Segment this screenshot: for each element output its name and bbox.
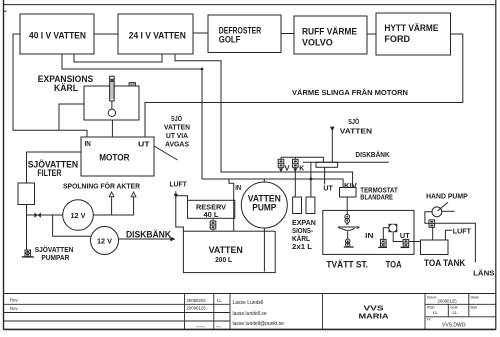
svg-text:AVGAS: AVGAS [165,140,189,149]
svg-text:20090203: 20090203 [187,298,207,303]
title block row lines left [4,303,231,305]
svg-text:lasse.lundell@punkt.se: lasse.lundell@punkt.se [233,321,285,327]
svg-text:UT: UT [323,183,333,192]
wire filter line to pump 1 [27,214,63,216]
wash basin symbol [338,222,360,239]
dip tube / pump suction into tank [263,228,265,272]
svg-text:FILTER: FILTER [37,168,62,178]
svg-text:UT: UT [400,231,410,240]
svg-text:UT: UT [138,139,150,148]
svg-text:VVS.DWG: VVS.DWG [442,323,466,329]
svg-text:Skala: Skala [471,296,479,300]
wire 24L stub right via x221 and y172 to termostat [175,54,353,188]
toilet IN valve [378,239,387,247]
wire valve stem to toa tank [432,227,434,240]
svg-text:2x1 L: 2x1 L [292,242,312,251]
svg-text:LL: LL [433,310,438,315]
toa tank vent LUFT [445,230,452,240]
toa tank box [421,240,449,255]
wire branch down to 12V pump 2 [53,215,91,236]
wire pump top stub to feed line [263,179,265,182]
svg-text:DISKBÄNK: DISKBÄNK [126,229,172,239]
svg-text:IN: IN [365,231,373,240]
box RUFF VARME VOLVO [294,16,367,54]
border frame right [495,0,497,330]
title block right section lines [425,303,496,305]
expansion tank EXPANSIONS KARL [84,86,139,120]
wire hand pump down to discharge valve [425,212,432,223]
svg-text:TVÄTT ST.: TVÄTT ST. [326,260,368,270]
wire box1 to box2 [94,33,118,35]
pump 12V no1 [63,200,94,231]
sea water intake riser to sink [331,131,333,162]
wire motor left to sea water filter [27,152,82,183]
border frame top [4,4,496,6]
svg-text:SPOLNING FÖR AKTER: SPOLNING FÖR AKTER [63,181,140,190]
toilet pump box [389,224,398,232]
title block [4,294,496,330]
svg-text:Godk: Godk [450,306,458,310]
pump 12V no2 [91,227,119,255]
svg-text:Rev: Rev [10,298,18,303]
expansion tank level gauge [108,76,115,116]
wire 12V2 to diskbank arrow [119,238,171,240]
svg-text:LL: LL [453,310,458,315]
border frame bottom [4,328,496,330]
sea water filter box SJOVATTEN FILTER [18,183,35,205]
svg-text:40 L: 40 L [204,210,219,219]
svg-text:TOA TANK: TOA TANK [424,258,466,268]
svg-text:GOLF: GOLF [219,35,241,45]
wash room box [323,210,414,254]
svg-text:VATTEN: VATTEN [340,127,372,136]
svg-text:40 I V VATTEN: 40 I V VATTEN [29,30,86,40]
svg-text:SJÖ: SJÖ [348,117,359,126]
svg-text:24 I V VATTEN: 24 I V VATTEN [129,30,186,40]
wire 40L stub down via y69 and x202 to cold feed line [62,54,202,179]
svg-text:200 L: 200 L [215,255,232,264]
border frame left [3,0,5,330]
wire 40L stub to 24L stub at y62 [74,54,162,62]
wire expansion tank left to motor-in line [59,104,84,130]
svg-text:IN: IN [85,139,91,148]
svg-text:HYTT VÄRME: HYTT VÄRME [384,23,438,33]
svg-text:MARIA: MARIA [359,312,390,321]
wire thermostat down to shower valve [346,197,348,214]
tank box 24 I V VATTEN [118,14,193,54]
sink line and basin DISKBANK [303,161,389,163]
sink drain [324,167,326,184]
V and K tap assembly over sink [281,157,323,162]
wire expansion tank bottom to motor top [111,120,113,137]
valve reserv to main tank [210,218,216,231]
main water tank VATTEN 200 L [183,231,275,272]
svg-text:20090125: 20090125 [438,299,458,304]
wire toilet pump out through UT valve to toa tank [393,232,420,241]
svg-text:lasse.lundell.se: lasse.lundell.se [233,311,267,317]
svg-text:MOTOR: MOTOR [99,153,130,163]
reserve tank RESERV 40 L [188,200,235,218]
svg-text:Rev: Rev [10,306,18,311]
wire cold feed line y179 to termostat [202,179,343,188]
wire box4 to box5 [367,33,376,35]
expansion vessels 2x1 L [293,197,315,214]
svg-text:BLANDARE: BLANDARE [360,193,393,202]
wire box1 left to motor IN [13,34,87,137]
border tick mark [4,10,7,12]
svg-text:Ritad: Ritad [427,306,435,310]
svg-text:Datum: Datum [427,296,437,300]
svg-text:LUFT: LUFT [170,180,188,189]
svg-text:LUFT: LUFT [453,227,472,236]
wash stand valve and base [344,239,354,247]
shower mixer valve [345,214,350,223]
box HYTT VARME FORD [376,13,451,55]
svg-text:K: K [299,163,304,172]
svg-text:RUFF VÄRME: RUFF VÄRME [302,26,357,36]
svg-text:VÄRME SLINGA FRÅN MOTORN: VÄRME SLINGA FRÅN MOTORN [292,88,408,97]
svg-text:LÄNS: LÄNS [473,269,494,278]
svg-text:12 V: 12 V [97,236,113,245]
wire varme slinga return from box5 right down to motor UT [145,34,463,137]
title block column dividers [184,294,186,330]
svg-text:DISKBÄNK: DISKBÄNK [355,150,390,159]
svg-text:VATTEN: VATTEN [209,245,243,255]
svg-text:IN: IN [235,183,241,192]
thermostat mixer TERMOSTAT BLANDARE [340,188,357,198]
svg-text:Lasse Lundell: Lasse Lundell [233,300,264,306]
motor box [81,137,154,176]
hand pump valve [429,220,435,227]
wire reserv IN branch from cold feed [229,179,234,231]
tap valve V [278,157,284,167]
svg-text:KÄRL: KÄRL [54,83,79,93]
tank box 40 I V VATTEN [20,14,94,54]
svg-text:LL: LL [217,298,222,303]
svg-text:20090125: 20090125 [187,306,207,311]
svg-text:TOA: TOA [386,260,403,270]
wire filter down to seacock [26,205,28,251]
svg-text:PUMPAR: PUMPAR [41,253,69,262]
svg-text:Blad: Blad [471,306,478,310]
water pump VATTEN PUMP [241,182,287,228]
wire box3 to box4 [281,33,294,35]
wire overboard discharge to lans [435,223,476,262]
expansion tank filler cap [129,83,136,87]
hand pump [432,202,455,217]
wire toilet pump to IN valve [383,228,388,240]
svg-text:PUMP: PUMP [252,202,276,212]
svg-text:Fil: Fil [427,318,431,322]
deck wash arrow 1 [109,192,114,197]
valve on suction line [34,213,41,218]
title block top line [4,293,496,295]
wire 12V1 to deck wash outlets [93,197,133,215]
wire K down to expansion vessel 1 [294,167,296,197]
svg-text:12 V: 12 V [71,211,87,220]
toilet UT valve [401,239,410,247]
svg-text:KIV: KIV [344,181,358,190]
luft vent at reserv tank [176,196,188,201]
wire sink feed junction down to expansion vessel 2 [310,162,312,197]
svg-text:VOLVO: VOLVO [302,37,333,47]
wire sea water out diagonal (ut via avgas) [154,146,178,160]
box DEFROSTER GOLF [208,15,281,53]
svg-text:HAND PUMP: HAND PUMP [426,191,468,200]
intake strainer arrow [330,127,335,132]
seacock symbol [22,250,34,257]
junction dot at corner x202 [201,68,204,71]
wire box2 to box3 [193,32,208,34]
tap valve K [293,157,299,167]
deck wash arrow 2 [131,192,136,197]
svg-text:FORD: FORD [384,34,410,44]
